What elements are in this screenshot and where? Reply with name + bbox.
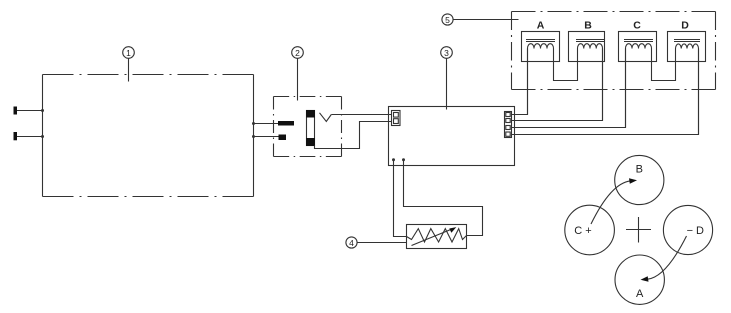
wire box1 to plug contact 2 xyxy=(252,135,279,138)
label 1 xyxy=(123,47,135,82)
coil assembly dash-dot enclosure xyxy=(512,12,716,90)
coil B xyxy=(569,20,605,62)
box3 left connector xyxy=(392,111,401,126)
svg-text:A: A xyxy=(537,20,545,32)
box 3 (controller) xyxy=(389,107,515,166)
wire pin4 to coil D xyxy=(512,49,699,135)
coil B right leg xyxy=(602,49,604,121)
wire V to box3 pin1 xyxy=(331,114,392,116)
wire box3 to resistor right xyxy=(402,158,483,235)
wire box3 to resistor left xyxy=(392,158,407,236)
wire pin2 to coil B xyxy=(512,49,603,121)
contact bar 1 xyxy=(278,121,294,126)
label 3 xyxy=(441,47,453,110)
wire pin1 to coil A xyxy=(512,49,528,115)
coil A right leg + link to coil B left leg xyxy=(554,49,578,81)
box3 right connector xyxy=(505,112,512,138)
svg-text:B: B xyxy=(584,20,592,32)
terminal T1 xyxy=(14,107,45,115)
contact bar 2 xyxy=(279,135,287,141)
phase circle A xyxy=(615,255,664,304)
svg-text:3: 3 xyxy=(444,48,449,58)
switch V contact xyxy=(320,113,332,122)
svg-text:1: 1 xyxy=(126,48,131,58)
coil C right leg + link to coil D left leg xyxy=(652,49,676,81)
coil A left leg xyxy=(527,49,529,115)
svg-text:B: B xyxy=(636,163,643,175)
coil D xyxy=(668,20,706,62)
coil D right leg xyxy=(698,49,700,135)
center cross xyxy=(626,217,651,243)
svg-text:− D: − D xyxy=(687,225,704,237)
svg-text:2: 2 xyxy=(295,48,300,58)
coil A xyxy=(522,20,560,62)
wire box1 to plug contact 1 xyxy=(252,122,278,125)
svg-text:4: 4 xyxy=(349,238,354,248)
label 5 xyxy=(442,14,519,25)
arrow D to A xyxy=(641,236,687,282)
plug body xyxy=(306,110,315,146)
wire plug bottom to box3 pin2 xyxy=(315,122,393,149)
svg-text:D: D xyxy=(681,20,689,32)
svg-text:C +: C + xyxy=(574,225,591,237)
connector 2 dash-dot enclosure xyxy=(274,97,342,157)
phase circle B xyxy=(615,155,664,204)
svg-text:5: 5 xyxy=(445,15,450,25)
svg-text:A: A xyxy=(636,288,644,300)
wire pin3 to coil C xyxy=(512,49,626,128)
coil C xyxy=(619,20,657,62)
phase circle C xyxy=(565,205,615,255)
coil C left leg xyxy=(625,49,627,128)
label 2 xyxy=(292,47,304,101)
box 1 (dash-dot enclosure) xyxy=(43,75,254,197)
arrow C to B xyxy=(591,178,637,224)
resistor 4 (adjustable) xyxy=(407,225,467,249)
phase circle D xyxy=(663,205,712,254)
svg-text:C: C xyxy=(633,20,641,32)
label 4 xyxy=(346,237,407,248)
terminal T2 xyxy=(14,132,45,140)
